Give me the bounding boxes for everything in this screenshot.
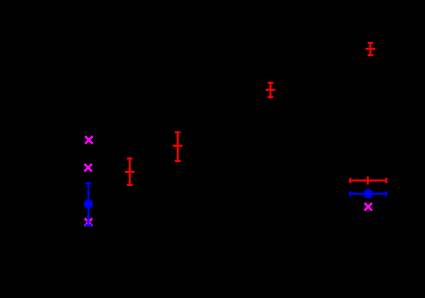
blue errorbar data point with asterisk marker: [85, 183, 91, 225]
red errorbar data point P2: [266, 83, 276, 97]
magenta X data point M1: [85, 136, 93, 144]
legend magenta X sample: [364, 203, 372, 211]
magenta X data point M2: [84, 164, 92, 172]
legend blue errorbar sample with asterisk marker: [350, 191, 386, 196]
blue asterisk marker on data point: [84, 199, 93, 208]
legend red errorbar sample: [350, 176, 386, 184]
red errorbar data point P1: [366, 43, 376, 55]
red errorbar data point P4: [125, 159, 135, 186]
magenta X data point M3: [85, 218, 93, 226]
blue asterisk marker on legend sample: [363, 189, 372, 198]
red errorbar data point P3: [173, 132, 183, 161]
